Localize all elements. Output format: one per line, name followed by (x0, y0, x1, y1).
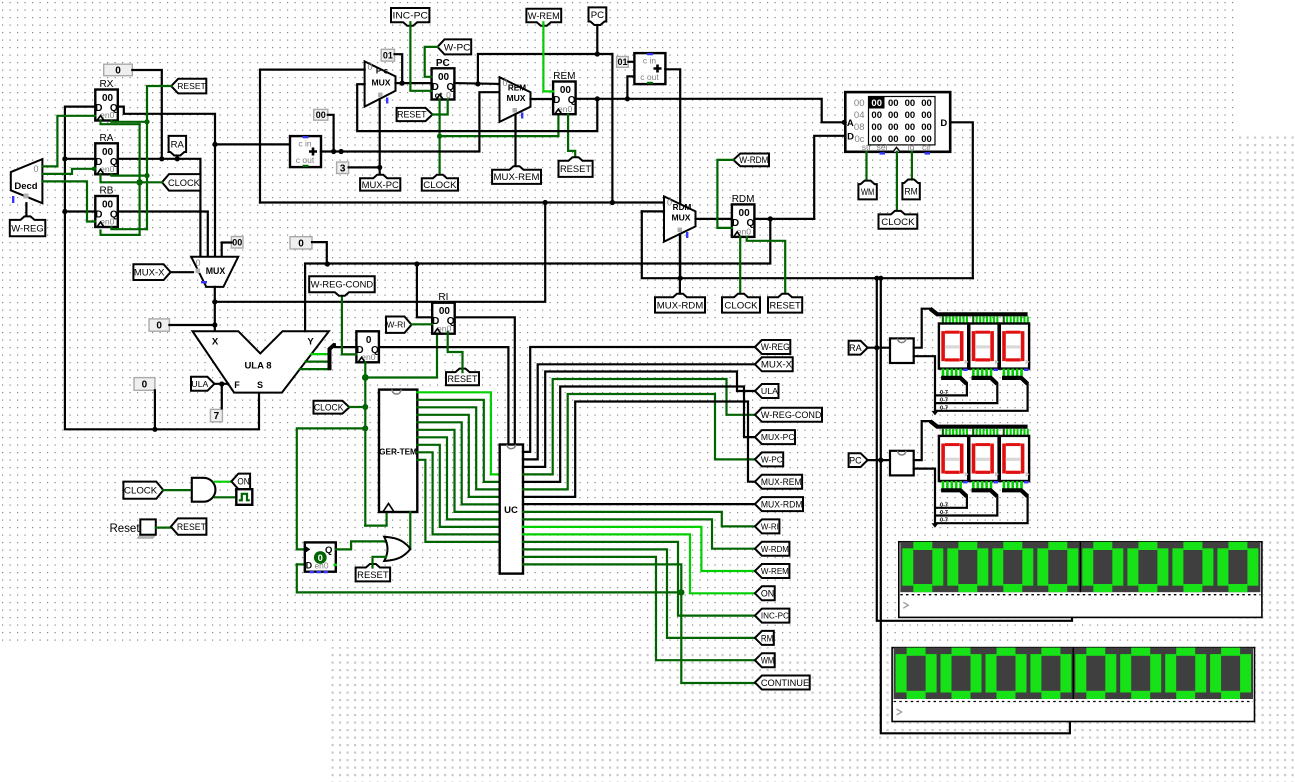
tunnel ULA col (755, 384, 779, 398)
wire stub2 (1020, 481, 1023, 489)
tunnel RESET top-left (171, 79, 206, 94)
tunnel ULA sel (191, 377, 214, 391)
node cont (678, 589, 684, 595)
svg-text:00: 00 (905, 110, 916, 121)
wire mux out X (214, 287, 216, 331)
tunnel CLOCK pc (422, 175, 458, 191)
tunnel MUX-X col (755, 357, 793, 371)
wire step RA0 (937, 384, 967, 396)
wire pcmux sel (379, 99, 381, 178)
wire remmux out (531, 98, 554, 100)
wire clock col v (139, 124, 141, 235)
node RA tap (874, 345, 879, 350)
constant 0 (ULA X aux) (134, 378, 155, 391)
tunnel CLOCK ram (879, 211, 918, 229)
wire stub (1013, 316, 1015, 324)
svg-text:CLOCK: CLOCK (168, 178, 201, 189)
register COND (356, 331, 379, 362)
svg-text:ON: ON (237, 477, 249, 487)
wire RB Q (118, 212, 208, 257)
wire ram D out (950, 122, 973, 278)
tunnel MUX-PC (360, 175, 400, 191)
svg-text:CLOCK: CLOCK (314, 402, 343, 412)
wire UC-CONTINUE (523, 564, 681, 592)
tunnel CONTINUE col (755, 676, 810, 690)
svg-text:D: D (940, 118, 947, 129)
wire RA D branch (65, 158, 95, 160)
memory RAM (845, 92, 950, 152)
svg-text:MUX-X: MUX-X (134, 268, 165, 278)
wire RI D (417, 264, 432, 317)
splitter bot RA1 (972, 378, 998, 384)
tunnel W-REG-COND col (755, 408, 822, 422)
node reset RA (144, 173, 149, 178)
wire RI Q to UC (455, 317, 515, 444)
mux MUX regsel (191, 257, 238, 287)
wire 0const drop (154, 390, 156, 429)
svg-text:MUX: MUX (506, 93, 525, 103)
wire stub2 (1007, 481, 1010, 489)
wire clk to RI reg (365, 332, 437, 378)
svg-text:W-PC: W-PC (761, 455, 783, 464)
wire RX to adder1 (215, 143, 290, 145)
svg-text:MUX-PC: MUX-PC (362, 179, 399, 190)
constant 0 X (149, 319, 169, 331)
wire pc reset (433, 100, 448, 115)
wire stub2 (942, 481, 945, 489)
wire rdm to ramD (814, 136, 845, 219)
svg-text:en0: en0 (315, 561, 329, 571)
constant 7 (210, 409, 222, 421)
tunnel WM ram (858, 181, 876, 200)
svg-text:RA: RA (849, 343, 862, 354)
wire stub (1027, 316, 1029, 324)
wire 7 up (221, 385, 223, 409)
svg-text:MUX: MUX (371, 78, 390, 88)
wire stub (1027, 429, 1029, 437)
wire T3 (417, 415, 499, 497)
svg-text:00: 00 (871, 98, 882, 109)
wire T2 (417, 407, 499, 489)
display 7seg RA2 (1000, 324, 1029, 369)
node busB top (878, 276, 883, 281)
svg-text:MUX: MUX (206, 266, 226, 276)
node muxout-y302 (212, 299, 217, 304)
svg-text:W-PC: W-PC (444, 42, 471, 53)
svg-text:ULA: ULA (191, 379, 208, 389)
svg-text:ULA: ULA (761, 386, 778, 396)
node pc-tunnel-join (595, 51, 600, 56)
svg-text:W-REG: W-REG (761, 342, 790, 352)
svg-text:MUX: MUX (671, 213, 690, 223)
wire stub (1023, 429, 1025, 437)
svg-text:X: X (212, 337, 219, 348)
tunnel W-REM col (755, 564, 790, 578)
wire UC-MUX-REM (523, 402, 755, 497)
wire UC-W-REG (523, 347, 755, 452)
wire stub (945, 429, 947, 437)
node ula-7 (219, 381, 224, 386)
svg-text:RESET: RESET (177, 81, 206, 91)
wire stub2 (985, 369, 988, 377)
wire UC-W-REM (523, 527, 755, 571)
wire UC-MUX-RDM (523, 503, 755, 505)
node rdmq (768, 216, 773, 221)
wire PC low bus (914, 469, 935, 524)
wire stub (979, 429, 981, 437)
svg-text:S: S (257, 380, 263, 390)
svg-text:00: 00 (905, 98, 916, 109)
wire PC loop up (478, 54, 613, 84)
tunnel CLOCK gen (123, 482, 163, 499)
wire stub2 (990, 369, 993, 377)
node en RA (92, 167, 96, 171)
wire reset RI v (448, 332, 463, 372)
svg-text:0: 0 (195, 258, 200, 268)
display big A (899, 542, 1262, 618)
wire stub blue (994, 369, 999, 371)
svg-text:CLOCK: CLOCK (124, 486, 158, 497)
tunnel CLOCK regs (162, 174, 200, 191)
wire stub blue (994, 481, 999, 483)
wire osc wire (215, 496, 236, 498)
svg-text:3: 3 (340, 163, 346, 174)
wire stub2 (959, 369, 962, 377)
wire stub2 (1016, 481, 1019, 489)
wire W-PC (425, 47, 438, 77)
svg-text:01: 01 (617, 57, 627, 67)
node remq2 (625, 96, 630, 101)
svg-text:INC-PC: INC-PC (393, 10, 429, 20)
svg-text:W-REG: W-REG (11, 224, 44, 235)
wire stub (996, 429, 998, 437)
svg-text:0: 0 (142, 380, 148, 391)
wire stub blue (1024, 369, 1029, 371)
node pcl1 (543, 200, 548, 205)
splitter bot RA2 (1002, 378, 1028, 384)
wire stub blue (963, 369, 968, 371)
display 7seg PC0 (939, 436, 968, 481)
wire flag3 (300, 368, 329, 370)
wire cond clk (364, 362, 366, 525)
tunnel RM col (755, 631, 774, 645)
wire pc long (260, 201, 664, 203)
tunnel PC disp (849, 453, 868, 467)
node clk-rem (437, 134, 442, 139)
wire step PC1 (937, 496, 997, 515)
tunnel RESET gen (171, 518, 207, 534)
svg-text:0-7: 0-7 (940, 502, 948, 508)
svg-text:Reset: Reset (109, 523, 140, 535)
svg-text:00: 00 (888, 98, 899, 109)
wire stub (1010, 316, 1012, 324)
wire Y input (305, 264, 327, 332)
svg-text:P c: P c (376, 67, 389, 76)
wire clock gen (163, 489, 192, 491)
tunnel PC top (589, 7, 607, 25)
wire stub2 (1020, 369, 1023, 377)
subcircuit hex2seg PC (890, 451, 914, 476)
svg-text:W-REG-COND: W-REG-COND (761, 410, 822, 420)
svg-text:00: 00 (871, 110, 882, 121)
wire step RA1 (937, 384, 997, 403)
splitter top RA (930, 309, 1027, 315)
wire 0top to RA-Q node (132, 70, 162, 159)
wire step PC0 (937, 496, 967, 508)
wire stub (1006, 429, 1008, 437)
display 7seg PC1 (969, 436, 998, 481)
node clk1 (362, 374, 369, 381)
flip-flop DFF (305, 542, 336, 571)
wire ram str (865, 152, 867, 184)
svg-text:ct: ct (435, 90, 443, 100)
wire stub2 (951, 369, 954, 377)
wire Decd in (25, 203, 27, 220)
svg-text:00: 00 (871, 122, 882, 133)
wire muxout east (215, 203, 545, 302)
tunnel INC-PC top (391, 8, 429, 26)
wire condQ to UC (381, 347, 509, 444)
wire stub (989, 316, 991, 324)
wire stub (993, 429, 995, 437)
wire stub2 (977, 369, 980, 377)
wire busB (881, 278, 1070, 733)
svg-text:F: F (234, 380, 240, 390)
wire stub2 (942, 369, 945, 377)
node RX-adder (212, 142, 217, 147)
tunnel W-RDM col (755, 542, 790, 556)
wire rdmmux in2 (642, 210, 664, 212)
wire stub (1013, 429, 1015, 437)
svg-text:Decd: Decd (14, 181, 37, 192)
svg-text:W-RDM: W-RDM (739, 155, 768, 165)
wire reset to or (373, 557, 387, 568)
svg-text:0-7: 0-7 (940, 518, 948, 524)
splitter flags (330, 344, 335, 370)
wire reset to RX (111, 121, 147, 122)
svg-text:D: D (847, 131, 854, 142)
tunnel RESET pc (397, 108, 433, 121)
wire RA low bus (914, 356, 935, 411)
wire stub (1017, 429, 1019, 437)
wire stub (963, 316, 965, 324)
splitter bot PC1 (972, 490, 998, 496)
wire continue long (297, 564, 755, 683)
svg-text:D: D (306, 560, 313, 570)
wire stub (949, 316, 951, 324)
tunnel MUX-RDM (655, 294, 705, 313)
svg-text:W-RI: W-RI (387, 321, 406, 330)
splitter arrow PC (932, 523, 939, 528)
svg-text:WM: WM (761, 656, 774, 667)
svg-text:Y: Y (307, 337, 314, 348)
wire T6 (417, 437, 499, 519)
svg-text:0: 0 (115, 66, 121, 77)
wire flag2 (306, 361, 329, 363)
wire stub2 (977, 481, 980, 489)
tunnel W-REG col (755, 340, 790, 354)
svg-text:clr: clr (922, 142, 931, 152)
wire T0 (417, 392, 499, 474)
svg-text:00: 00 (316, 110, 326, 120)
wire INC-PC (410, 22, 431, 91)
mux RDM MUX (664, 196, 696, 241)
svg-text:0: 0 (367, 62, 372, 72)
wire stub2 (1011, 369, 1014, 377)
svg-text:RM: RM (761, 632, 774, 643)
tunnel MUX-REM (492, 166, 541, 184)
wire stub2 (1016, 369, 1019, 377)
wire stub (1020, 316, 1022, 324)
node 0top join (159, 156, 164, 161)
svg-text:PC: PC (591, 10, 604, 21)
svg-text:00: 00 (854, 98, 865, 109)
wire flag bus (335, 344, 357, 347)
wire pc to pcmux (260, 70, 365, 203)
svg-text:RA: RA (171, 139, 185, 150)
svg-text:RESET: RESET (770, 300, 801, 311)
wire stub2 (985, 481, 988, 489)
wire reset to RA (111, 174, 147, 175)
wire stub (1006, 316, 1008, 324)
wire stub (942, 429, 944, 437)
mux PC MUX (365, 61, 396, 106)
wire add1 out (321, 92, 500, 151)
svg-text:RM: RM (904, 187, 917, 198)
svg-text:W-REM: W-REM (761, 566, 789, 576)
svg-text:MUX-RDM: MUX-RDM (761, 499, 803, 509)
tunnel W-RI col (755, 519, 780, 533)
wire clock RX (101, 121, 140, 125)
svg-text:0: 0 (667, 198, 672, 208)
tunnel W-REG decd (10, 216, 46, 236)
node pcl2 (610, 200, 615, 205)
wire stub2 (972, 481, 975, 489)
wire UC-WM (523, 557, 755, 660)
node add2 join (678, 276, 683, 281)
wire stub (983, 316, 985, 324)
wire stub (996, 316, 998, 324)
wire pc clock (439, 100, 441, 179)
wire reset to RB (111, 227, 147, 229)
wire dff Q (336, 541, 386, 549)
svg-text:01: 01 (383, 50, 393, 60)
wire ULA sel (214, 383, 228, 385)
svg-text:08: 08 (854, 122, 865, 133)
wire stub (972, 316, 974, 324)
svg-text:c out: c out (296, 155, 315, 165)
tunnel ON col (755, 586, 775, 600)
adder ADD1 (290, 136, 321, 167)
display 7seg RA0 (939, 324, 968, 369)
svg-text:ULA 8: ULA 8 (244, 361, 271, 372)
svg-text:00: 00 (888, 110, 899, 121)
splitter arrow RA (932, 411, 939, 416)
wire 0y (312, 242, 327, 263)
wire stub (949, 429, 951, 437)
tunnel MUX-X (133, 264, 170, 280)
svg-text:c in: c in (643, 56, 657, 66)
splitter bot RA0 (941, 378, 967, 384)
wire stub (1023, 316, 1025, 324)
wire RA Q (118, 159, 201, 257)
constant 0 y (290, 237, 312, 249)
svg-text:MUX-REM: MUX-REM (761, 477, 802, 487)
tunnel MUX-REM col (755, 475, 802, 489)
wire stub (983, 429, 985, 437)
node pcmux out (400, 81, 405, 86)
constant 0 top (104, 64, 133, 76)
wire clk to REM (440, 114, 559, 136)
wire stub (979, 316, 981, 324)
decoder Decd (11, 159, 43, 203)
svg-text:MUX-X: MUX-X (761, 360, 793, 371)
node PC tap (878, 458, 883, 463)
wire rdmmux in2 v (642, 211, 973, 278)
svg-text:CLOCK: CLOCK (724, 300, 758, 311)
node busA top (874, 276, 879, 281)
wire T4 (417, 422, 499, 504)
wire rdmmux sel (679, 234, 681, 297)
node ram A (842, 120, 847, 125)
wire stub (1010, 429, 1012, 437)
svg-text:04: 04 (854, 110, 865, 121)
wire pc east drop (611, 54, 613, 203)
wire UC-RM (523, 549, 755, 638)
wire REM Q (576, 99, 846, 123)
svg-text:c in: c in (298, 139, 312, 149)
wire RA to box (868, 347, 890, 349)
node RDM-RI (414, 261, 419, 266)
splitter bot PC2 (1002, 490, 1028, 496)
wire stub blue (963, 481, 968, 483)
wire T7 (417, 445, 499, 527)
tunnel RESET rdm (768, 294, 802, 313)
wire PC seg bus (914, 421, 931, 460)
constant 00 add1 (314, 109, 328, 120)
svg-text:RESET: RESET (177, 522, 207, 532)
wire stub2 (981, 369, 984, 377)
wire Decd out2 (42, 169, 95, 174)
wire RA tunnel drop (176, 156, 178, 159)
wire PC tunnel drop (596, 25, 598, 54)
tunnel CLOCK mid (314, 401, 350, 414)
svg-text:RESET: RESET (357, 570, 389, 581)
wire on wire (215, 481, 232, 483)
svg-text:W-RDM: W-RDM (761, 544, 789, 554)
node result-RB (62, 209, 67, 214)
wire clk to gertem (365, 512, 386, 526)
wire 0 to X (169, 324, 214, 326)
svg-text:00: 00 (888, 122, 899, 133)
svg-text:RDM: RDM (673, 203, 692, 212)
wire stub2 (955, 481, 958, 489)
svg-text:0-7: 0-7 (940, 398, 948, 404)
node result-RA (62, 156, 67, 161)
svg-text:00: 00 (921, 122, 932, 133)
node clk3 (362, 425, 368, 431)
wire stub (966, 316, 968, 324)
tunnel W-REG-COND (309, 276, 375, 296)
svg-text:MUX-REM: MUX-REM (494, 172, 540, 183)
node muxout-0c (212, 322, 217, 327)
svg-text:CLOCK: CLOCK (423, 180, 457, 191)
wire reset col (147, 86, 171, 229)
svg-text:0: 0 (33, 164, 38, 174)
wire UC-MUX-PC (523, 387, 755, 482)
wire ram ld (911, 152, 913, 183)
wire ram clock (896, 152, 898, 215)
